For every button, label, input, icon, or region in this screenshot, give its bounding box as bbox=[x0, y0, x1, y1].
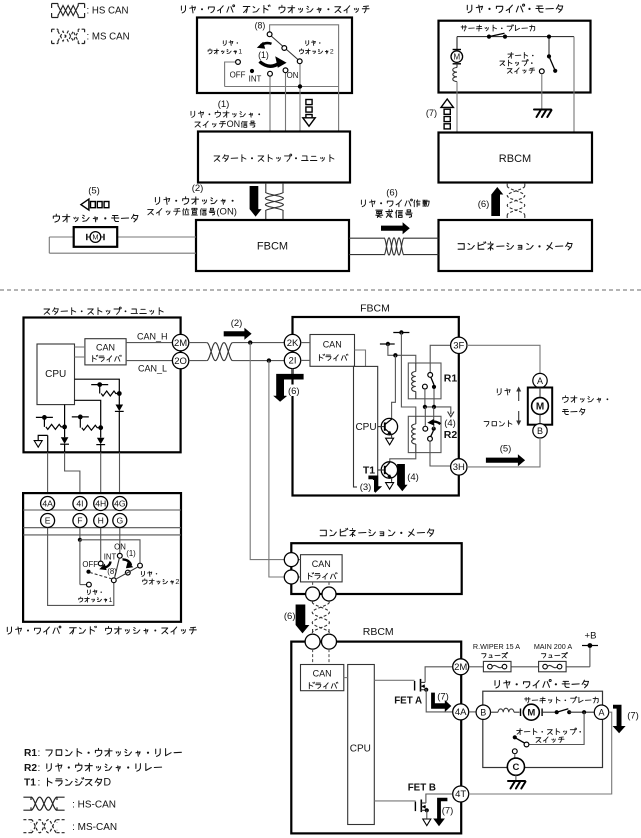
svg-text:M: M bbox=[536, 402, 544, 413]
svg-text:(1): (1) bbox=[126, 549, 136, 558]
svg-text:3H: 3H bbox=[453, 462, 465, 473]
svg-text:CPU: CPU bbox=[350, 744, 371, 755]
relay R2 box bbox=[408, 416, 441, 452]
svg-text:CPU: CPU bbox=[355, 422, 376, 433]
relay R2 coil bbox=[412, 416, 416, 452]
CPU box (RBCM) bbox=[348, 665, 375, 825]
inductor bbox=[491, 708, 520, 712]
dashed twisted pair meter-RBCM bbox=[312, 601, 329, 634]
svg-text::: : bbox=[38, 748, 41, 759]
meter box (top) bbox=[439, 220, 593, 271]
wire H to INT bbox=[100, 528, 102, 562]
wire 4A to B bbox=[469, 711, 476, 713]
svg-text:CAN: CAN bbox=[313, 669, 332, 679]
wire right loop to unit bbox=[338, 87, 340, 132]
switch assembly box (bottom) bbox=[23, 493, 181, 622]
pins E F H G bbox=[41, 514, 127, 528]
wire switch to ground (top) bbox=[541, 74, 543, 109]
transistor Q2 bbox=[378, 418, 398, 444]
relay R2 contact bbox=[423, 407, 436, 441]
power stub 1 bbox=[393, 330, 416, 416]
svg-text:MAIN 200 A: MAIN 200 A bbox=[534, 642, 573, 651]
svg-text:(4): (4) bbox=[407, 472, 419, 483]
svg-text:CPU: CPU bbox=[45, 369, 66, 380]
wire washer2 to unit bbox=[299, 64, 301, 132]
washer motor symbol (top left) bbox=[87, 232, 104, 243]
svg-text:4G: 4G bbox=[114, 498, 126, 508]
wire breaker rail bbox=[457, 37, 574, 51]
pin C bbox=[507, 758, 524, 775]
wire unit to 4A bbox=[47, 452, 49, 496]
label rear washer1 (top) bbox=[208, 41, 242, 56]
svg-text:(2): (2) bbox=[231, 318, 243, 329]
switch labels (bottom) bbox=[82, 543, 136, 577]
svg-text:T1: T1 bbox=[363, 465, 375, 477]
circuit breaker (top) bbox=[487, 33, 507, 39]
label circuit breaker (top) bbox=[461, 25, 535, 31]
pins 4A 4I 4H 4G bbox=[41, 497, 127, 511]
svg-text:CAN: CAN bbox=[323, 340, 342, 350]
arrow (3) bbox=[357, 476, 382, 493]
fuse wire to +B bbox=[469, 646, 590, 667]
switch contacts OFF INT ON bbox=[236, 60, 288, 77]
svg-text:B: B bbox=[480, 707, 486, 717]
transistor T1 bbox=[378, 462, 398, 489]
svg-text:INT: INT bbox=[249, 75, 262, 84]
label circuit breaker (bottom) bbox=[525, 697, 599, 703]
svg-text:2O: 2O bbox=[174, 356, 187, 367]
signal squares (1) bbox=[303, 100, 315, 127]
svg-text:FBCM: FBCM bbox=[257, 241, 288, 253]
wire E to pivot bbox=[48, 528, 114, 606]
arrow (6) up bbox=[478, 187, 504, 216]
svg-text:(8): (8) bbox=[255, 21, 266, 31]
wiper motor box (top) bbox=[439, 21, 591, 93]
svg-text:(7): (7) bbox=[437, 692, 449, 703]
wire washer2 loop inside box bbox=[225, 25, 339, 87]
svg-text:: MS-CAN: : MS-CAN bbox=[72, 822, 117, 833]
relay R1 contact bbox=[423, 345, 451, 407]
pin 4A (RBCM) bbox=[453, 704, 469, 720]
svg-text:(7): (7) bbox=[426, 108, 437, 118]
curved arrow R2 bbox=[431, 422, 440, 425]
coil under motor (top) bbox=[453, 68, 457, 82]
CAN driver box (unit) bbox=[85, 339, 126, 365]
pin 2M (RBCM) bbox=[453, 659, 469, 675]
wire unit to 4I (jog) bbox=[65, 452, 80, 496]
svg-text:(5): (5) bbox=[88, 186, 100, 197]
fuse R.WIPER 15A bbox=[473, 642, 520, 672]
pin 2I bbox=[284, 352, 300, 368]
svg-text:R.WIPER 15 A: R.WIPER 15 A bbox=[473, 642, 520, 651]
auto stop switch (bottom) bbox=[512, 712, 584, 758]
ground arrow (unit) bbox=[34, 435, 48, 452]
label auto stop switch (top) bbox=[500, 52, 535, 73]
label start stop unit (bottom) bbox=[44, 307, 163, 315]
wire 3F to washer motor A bbox=[467, 345, 540, 373]
switch lever (8) bbox=[267, 32, 302, 64]
svg-text:: MS CAN: : MS CAN bbox=[87, 31, 130, 42]
connector row lines bbox=[23, 510, 181, 535]
svg-text:(2): (2) bbox=[192, 183, 204, 194]
label (2) + arrow right bbox=[224, 318, 252, 340]
label washer1 (bottom) bbox=[79, 590, 113, 604]
svg-text:RBCM: RBCM bbox=[499, 153, 531, 165]
ground (bottom) bbox=[508, 781, 526, 789]
svg-text:(ON): (ON) bbox=[216, 207, 237, 218]
relay R1 box bbox=[408, 363, 441, 399]
label combination meter (bottom) bbox=[320, 528, 434, 536]
label combination meter (top) bbox=[458, 242, 572, 250]
wire A loop to 4T bbox=[469, 712, 612, 794]
svg-text:H: H bbox=[98, 515, 104, 525]
wire stub2 to Q2 collector bbox=[392, 355, 396, 418]
legend T1 bbox=[24, 777, 111, 789]
dashes pins to CAN driver bbox=[313, 649, 329, 664]
svg-text:D: D bbox=[103, 777, 111, 789]
arrow (6) L-shaped at 2I bbox=[273, 369, 303, 402]
svg-text:M: M bbox=[92, 233, 98, 242]
FET B bbox=[374, 794, 452, 826]
twisted pair unit to FBCM (bottom) bbox=[189, 343, 284, 361]
svg-text:M: M bbox=[527, 708, 535, 719]
wire 2I to CAN driver bbox=[301, 359, 310, 361]
svg-text:(6): (6) bbox=[284, 611, 296, 622]
arrow (4) down bbox=[397, 464, 419, 491]
svg-text:(7): (7) bbox=[442, 806, 454, 817]
label start stop unit (top) bbox=[214, 154, 334, 162]
svg-text:4T: 4T bbox=[455, 789, 466, 800]
svg-text:4A: 4A bbox=[42, 498, 53, 508]
washer motor box (top left) bbox=[74, 227, 118, 247]
wire CAN driver to CPU (FBCM) bbox=[355, 350, 366, 366]
pin A (motor) bbox=[594, 705, 608, 719]
svg-text:4H: 4H bbox=[95, 498, 106, 508]
svg-text::: : bbox=[38, 763, 41, 774]
junction dot CAN_L branch bbox=[267, 358, 271, 362]
label rear wiper motor (bottom) bbox=[495, 680, 589, 689]
svg-text:INT: INT bbox=[104, 553, 117, 562]
pair FBCM-meter (top) bbox=[349, 238, 439, 255]
wire CAN driver to CPU (RBCM) bbox=[344, 677, 348, 679]
legend R1 bbox=[24, 748, 181, 759]
signal (7) up bbox=[426, 99, 454, 129]
wire washer motor B to 3H bbox=[467, 438, 540, 467]
branch wire to meter pin2 bbox=[269, 361, 284, 577]
washer motor loop (top left) bbox=[49, 237, 196, 253]
legend HS-CAN symbol bbox=[23, 797, 116, 810]
label washer motor (top left) bbox=[53, 214, 138, 222]
svg-text:2M: 2M bbox=[174, 338, 187, 349]
branch wire to meter pin1 bbox=[250, 343, 284, 560]
pullup network 1 (4G line) bbox=[75, 379, 124, 452]
svg-text:: HS-CAN: : HS-CAN bbox=[72, 800, 116, 811]
svg-text:FBCM: FBCM bbox=[360, 303, 390, 315]
pullup network 2 (4H line) bbox=[72, 400, 105, 452]
relay R1 coil bbox=[412, 363, 416, 399]
CPU box (FBCM) bbox=[354, 366, 378, 487]
wire R2 common to 3H bbox=[430, 441, 451, 466]
meter box (bottom) bbox=[291, 543, 461, 594]
pin 4T (RBCM) bbox=[453, 786, 469, 802]
CAN driver box (RBCM) bbox=[301, 665, 344, 691]
svg-text:: HS CAN: : HS CAN bbox=[87, 6, 129, 17]
curved arrow (8) bottom bbox=[102, 562, 111, 568]
pin 2O bbox=[172, 352, 188, 368]
CAN driver box (FBCM) bbox=[310, 335, 355, 367]
motor M (top) bbox=[451, 38, 463, 68]
label washer2 (bottom) bbox=[141, 571, 179, 586]
svg-text:(7): (7) bbox=[627, 711, 639, 722]
svg-text:A: A bbox=[598, 707, 604, 717]
svg-text:4A: 4A bbox=[455, 707, 467, 718]
fuse MAIN 200A bbox=[534, 642, 573, 672]
switch levers (bottom) bbox=[90, 558, 138, 579]
wire unit to 4H bbox=[100, 452, 102, 496]
RBCM top pins bbox=[305, 634, 336, 649]
RBCM box (bottom) bbox=[291, 642, 461, 834]
wire 2O to CAN driver bbox=[126, 360, 172, 362]
curved arrow (8) ccw bbox=[261, 43, 272, 45]
label (1) signal bbox=[191, 99, 260, 129]
svg-text:CAN: CAN bbox=[96, 343, 115, 353]
svg-text:G: G bbox=[116, 515, 123, 525]
bus and (4) drop arrow bbox=[423, 405, 456, 429]
svg-text:(5): (5) bbox=[500, 444, 512, 455]
wire G to ON bbox=[119, 528, 121, 554]
curved arrow (1) bottom bbox=[123, 559, 132, 565]
dashed pair RBCM-meter bbox=[507, 183, 525, 220]
svg-text:2M: 2M bbox=[454, 662, 467, 673]
wire washer2 loop (top switch) bbox=[225, 25, 339, 87]
label (5) + arrow right bbox=[486, 444, 525, 467]
motor M (bottom) bbox=[521, 704, 543, 720]
title switch assembly (bottom) bbox=[7, 626, 196, 634]
wire F branch bbox=[78, 528, 140, 585]
svg-text:(8): (8) bbox=[107, 567, 117, 576]
meter bottom pins + dashes bbox=[306, 582, 336, 601]
RBCM box (top) bbox=[439, 133, 593, 183]
CPU box (unit) bbox=[37, 344, 75, 405]
FBCM box (bottom) bbox=[293, 317, 459, 496]
label rear washer2 (top) bbox=[300, 41, 334, 56]
junction dot switch common bbox=[298, 84, 302, 88]
twisted pair unit-FBCM (top) bbox=[265, 183, 283, 220]
svg-text:ON: ON bbox=[287, 71, 299, 80]
CAN driver box (meter) bbox=[301, 555, 343, 582]
start stop unit box (top) bbox=[198, 132, 350, 183]
label T1 bbox=[362, 464, 377, 475]
wire unit to 4G bbox=[119, 452, 121, 496]
svg-text:2I: 2I bbox=[289, 356, 297, 367]
svg-text:1: 1 bbox=[109, 597, 113, 604]
svg-text:(4): (4) bbox=[444, 418, 456, 429]
svg-text:(6): (6) bbox=[386, 188, 398, 199]
wire R2 coil to T1 bbox=[390, 453, 416, 462]
svg-text:(1): (1) bbox=[218, 99, 230, 110]
arrow (7) right motor bbox=[613, 705, 639, 734]
svg-text:FET A: FET A bbox=[394, 696, 422, 707]
pullup network 3 (4I line) bbox=[36, 405, 69, 453]
svg-text:R2: R2 bbox=[444, 429, 458, 441]
FET A bbox=[374, 667, 452, 712]
section divider bbox=[0, 289, 641, 291]
+B terminal bbox=[582, 631, 598, 648]
label (6) + down arrow bbox=[284, 605, 310, 634]
signal (5) left bbox=[81, 186, 109, 211]
label (2) signal bbox=[148, 183, 237, 218]
start stop unit box (bottom) bbox=[24, 318, 181, 453]
FBCM box (top) bbox=[196, 220, 349, 271]
pin 2M bbox=[172, 334, 188, 350]
washer motor (bottom) bbox=[533, 373, 547, 387]
svg-text:4I: 4I bbox=[76, 498, 83, 508]
legend MS-CAN symbol bbox=[23, 820, 117, 833]
label auto stop switch (bottom) bbox=[517, 728, 581, 742]
label (6) request signal bbox=[361, 188, 429, 218]
svg-text:B: B bbox=[537, 426, 543, 436]
svg-text:2: 2 bbox=[330, 49, 334, 56]
ground (top) bbox=[534, 110, 552, 118]
legend HS CAN symbol bbox=[52, 4, 129, 18]
wires CPU to CAN driver bbox=[75, 347, 85, 357]
svg-text:R1: R1 bbox=[444, 373, 458, 385]
wire 2K to CAN driver bbox=[301, 342, 310, 344]
junction dot CAN_H branch bbox=[248, 340, 252, 344]
wire INT to unit bbox=[269, 76, 271, 132]
arrow (6) right bbox=[381, 222, 410, 234]
auto stop switch (top) bbox=[539, 35, 557, 74]
svg-text:T1: T1 bbox=[24, 778, 36, 789]
arrow (7) FET A bbox=[431, 692, 451, 713]
svg-text:E: E bbox=[45, 515, 51, 525]
title rear wiper and washer switch bbox=[181, 5, 369, 13]
svg-text:(6): (6) bbox=[478, 199, 490, 210]
pin B bbox=[476, 705, 490, 719]
svg-text:(3): (3) bbox=[360, 482, 372, 493]
arrow (2) down bbox=[250, 186, 262, 217]
svg-text:M: M bbox=[453, 52, 460, 61]
svg-text:ON: ON bbox=[227, 119, 241, 129]
svg-text:R2: R2 bbox=[24, 763, 37, 774]
svg-text:(6): (6) bbox=[288, 386, 300, 397]
svg-text:CAN_L: CAN_L bbox=[138, 363, 167, 373]
title rear wiper motor (top) bbox=[467, 4, 562, 13]
meter left pins bbox=[284, 553, 300, 584]
svg-text:3F: 3F bbox=[453, 341, 464, 352]
pin 3F bbox=[451, 337, 467, 353]
svg-text:RBCM: RBCM bbox=[363, 626, 394, 638]
wire right side to RBCM bbox=[573, 37, 575, 133]
svg-text:CAN: CAN bbox=[312, 559, 331, 569]
svg-text:FET B: FET B bbox=[408, 783, 436, 794]
svg-text:A: A bbox=[537, 376, 543, 386]
svg-text:R1: R1 bbox=[24, 748, 37, 759]
switch box (top) bbox=[197, 18, 352, 94]
wire motor to RBCM bbox=[456, 82, 458, 133]
legend R2 bbox=[24, 763, 162, 774]
svg-text:1: 1 bbox=[238, 49, 242, 56]
svg-text:(1): (1) bbox=[258, 50, 269, 60]
wire ON to unit bbox=[285, 73, 287, 132]
pin 2K bbox=[284, 334, 300, 350]
curved arrow (1) cw bbox=[260, 62, 281, 67]
svg-text:OFF: OFF bbox=[230, 71, 246, 80]
power stub 2 bbox=[380, 342, 416, 363]
svg-text:+B: +B bbox=[585, 631, 597, 642]
svg-text::: : bbox=[38, 778, 41, 789]
wire 2M to CAN driver bbox=[126, 342, 172, 344]
wire C to ground bbox=[515, 775, 517, 780]
arrow (7) FET B bbox=[433, 798, 453, 827]
circuit breaker (bottom) bbox=[542, 709, 594, 715]
svg-text:2K: 2K bbox=[287, 338, 299, 349]
svg-text:ON: ON bbox=[114, 543, 126, 552]
svg-text:CAN_H: CAN_H bbox=[137, 331, 168, 341]
switch contacts (bottom) bbox=[86, 553, 142, 587]
rear wiper motor box (bottom) bbox=[483, 691, 603, 767]
pin 3H bbox=[451, 459, 467, 475]
label rear / front + arrows bbox=[484, 387, 521, 427]
svg-text:F: F bbox=[77, 515, 82, 525]
legend MS CAN symbol bbox=[52, 29, 130, 43]
svg-text:OFF: OFF bbox=[82, 560, 98, 569]
label washer motor (bottom) bbox=[562, 396, 608, 415]
svg-text:2: 2 bbox=[175, 577, 179, 586]
svg-text:C: C bbox=[512, 762, 519, 773]
